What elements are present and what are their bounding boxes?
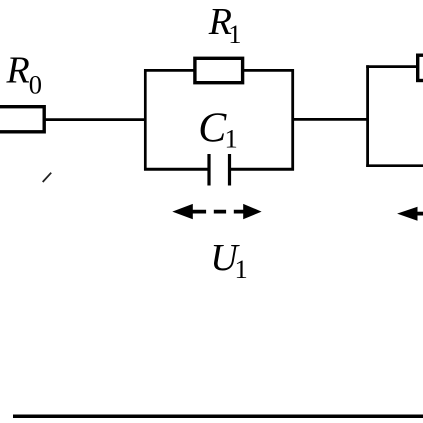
wire [144, 168, 209, 171]
wire [366, 164, 423, 167]
arrow U2 [397, 207, 423, 221]
svg-text:1: 1 [225, 123, 238, 153]
wire [291, 69, 294, 170]
wire [230, 168, 295, 171]
svg-text:C: C [198, 106, 227, 152]
svg-text:1: 1 [235, 254, 248, 284]
wire [144, 69, 294, 72]
svg-text:1: 1 [228, 19, 241, 49]
slash mark [43, 173, 52, 182]
arrow U1 [172, 204, 261, 219]
wire [293, 118, 368, 121]
capacitor C1 [198, 106, 238, 186]
resistor R0 [0, 50, 44, 132]
wire [144, 69, 147, 170]
label U1 [210, 237, 248, 284]
wire [366, 65, 369, 167]
resistor R1 [195, 1, 243, 83]
svg-text:R: R [6, 50, 30, 92]
resistor R2 [418, 55, 423, 80]
wire [366, 65, 418, 68]
bottom rule [13, 415, 423, 419]
wire [44, 118, 147, 121]
svg-text:0: 0 [29, 70, 42, 100]
